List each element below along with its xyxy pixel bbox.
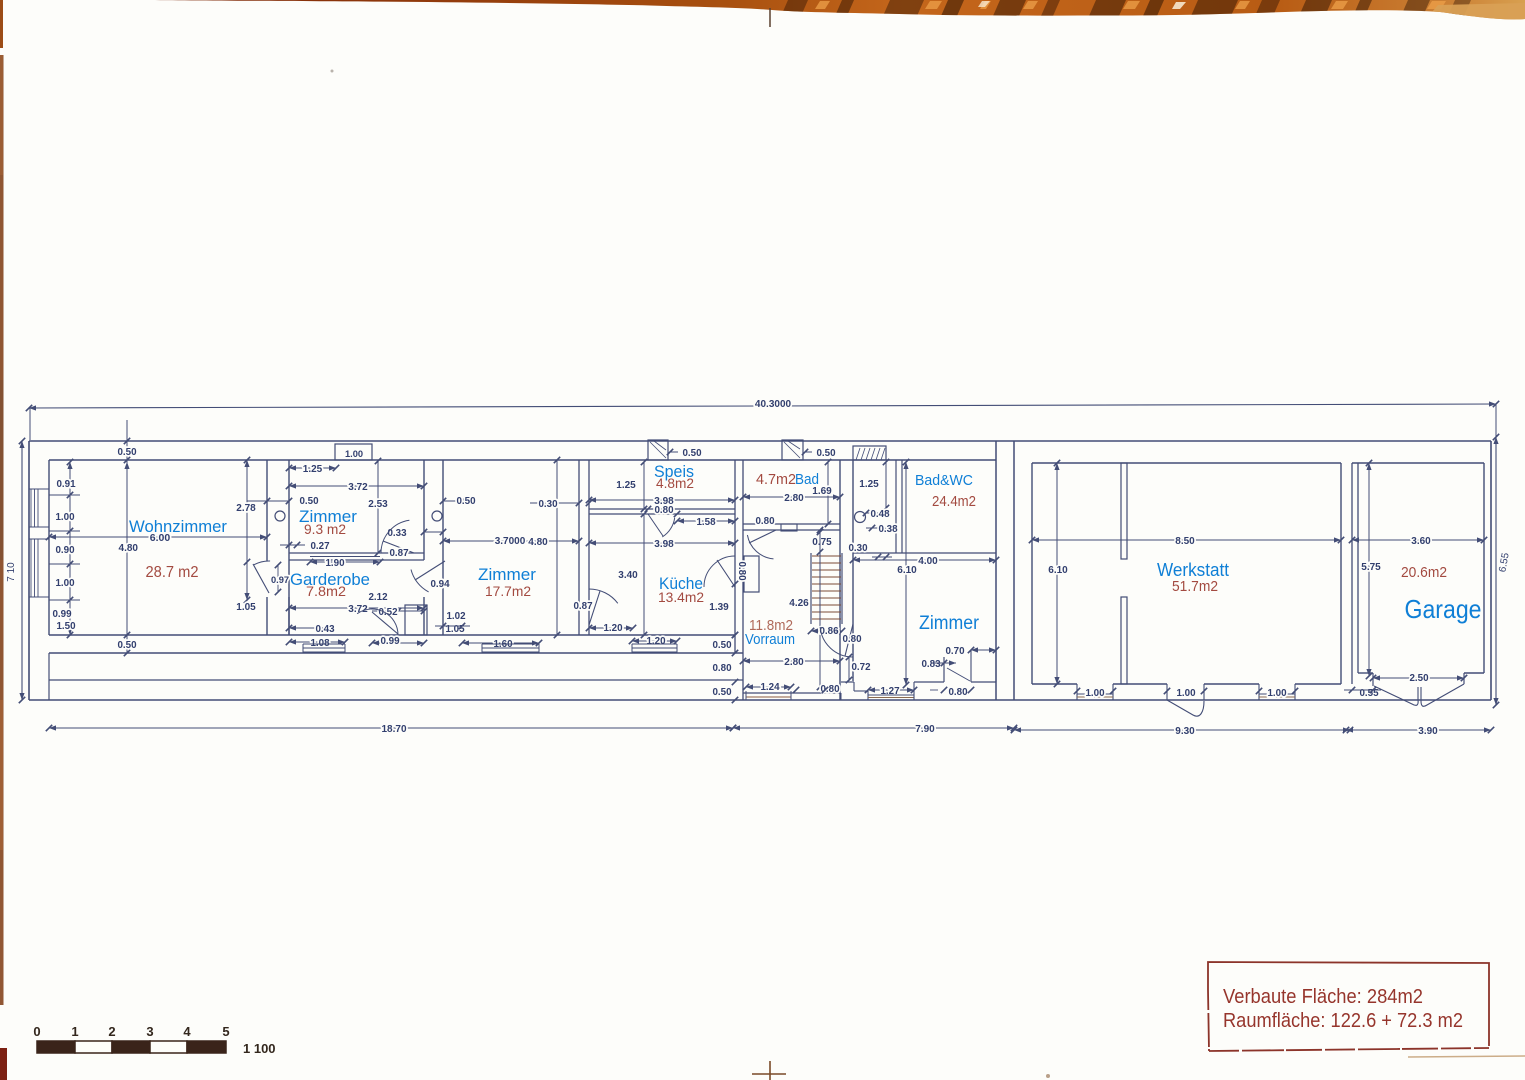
wall Wohnzimmer/Zimmer bbox=[266, 460, 268, 561]
svg-text:2: 2 bbox=[108, 1024, 115, 1039]
svg-text:0.87: 0.87 bbox=[389, 548, 409, 559]
stairs Vorraum bbox=[810, 553, 812, 624]
wc circle bbox=[855, 512, 866, 523]
svg-text:1.24: 1.24 bbox=[760, 682, 780, 693]
front wall Vorraum inner bbox=[743, 692, 840, 694]
svg-text:3: 3 bbox=[146, 1024, 153, 1039]
dimension 0.99 bbox=[372, 642, 424, 644]
dimension 3.98 lower bbox=[589, 542, 735, 544]
wall BadWC/Zimmer bbox=[853, 552, 996, 554]
dimension 6.10 werkstatt bbox=[1056, 463, 1058, 684]
dimension 0.50 wall WZ/Z bbox=[247, 500, 289, 502]
walls Werkstatt and Garage bbox=[1014, 440, 1491, 442]
dimension 2.53 bbox=[377, 461, 379, 553]
svg-text:6.10: 6.10 bbox=[1048, 565, 1068, 576]
svg-text:0.91: 0.91 bbox=[56, 479, 76, 490]
svg-text:Garage: Garage bbox=[1405, 594, 1482, 624]
dimension 0.52 bbox=[372, 610, 424, 612]
svg-text:8.50: 8.50 bbox=[1175, 536, 1195, 547]
svg-text:0.70: 0.70 bbox=[945, 646, 965, 657]
wood sliver top-left corner bbox=[0, 0, 3, 48]
dimension chain 0.50/0.80/0.50 Kueche front bbox=[732, 632, 738, 638]
dimension 7.90 bbox=[733, 727, 1014, 729]
dimension 1.20 a bbox=[589, 627, 633, 629]
dimension 18.70 bbox=[49, 727, 733, 729]
svg-text:9.30: 9.30 bbox=[1175, 726, 1195, 737]
svg-text:0.94: 0.94 bbox=[430, 579, 450, 590]
svg-text:1.20: 1.20 bbox=[646, 636, 666, 647]
svg-text:7.8m2: 7.8m2 bbox=[306, 583, 346, 599]
dimension 2.80 Vorraum bbox=[743, 660, 840, 662]
svg-text:0.80: 0.80 bbox=[654, 505, 674, 516]
door Speis bbox=[662, 518, 674, 537]
wood sliver left edge bbox=[0, 55, 4, 1005]
svg-text:2.80: 2.80 bbox=[784, 493, 804, 504]
window Kueche front bbox=[632, 643, 677, 645]
dimension 1.60 bbox=[462, 642, 539, 644]
front jamb bbox=[840, 693, 842, 700]
svg-text:2.12: 2.12 bbox=[368, 592, 388, 603]
svg-text:1.05: 1.05 bbox=[236, 602, 256, 613]
svg-text:2.53: 2.53 bbox=[368, 499, 388, 510]
door Werkstatt front bbox=[1167, 700, 1204, 716]
svg-text:0.27: 0.27 bbox=[310, 541, 330, 552]
front wall and veranda lines bbox=[49, 634, 735, 636]
svg-text:1.00: 1.00 bbox=[1267, 688, 1287, 699]
chimney Zimmer with 1.00 bbox=[335, 444, 372, 460]
dimension 1.24 bbox=[746, 686, 791, 688]
svg-text:1.69: 1.69 bbox=[812, 486, 832, 497]
dimension 3.60 bbox=[1352, 539, 1484, 541]
dimension 1.20 b bbox=[632, 640, 677, 642]
door Wohnzimmer 0.97 bbox=[253, 564, 269, 593]
dimension 5.75 bbox=[1368, 463, 1370, 676]
door Kueche west bbox=[589, 589, 618, 603]
dimension 0.75 bbox=[817, 529, 823, 535]
svg-text:1.00: 1.00 bbox=[345, 449, 363, 459]
dimension 3.7000 bbox=[443, 540, 579, 542]
svg-text:Raumfläche: 122.6 + 72.3 m2: Raumfläche: 122.6 + 72.3 m2 bbox=[1223, 1010, 1463, 1032]
svg-text:1.00: 1.00 bbox=[55, 512, 75, 523]
svg-text:0.52: 0.52 bbox=[378, 607, 398, 618]
svg-text:1.25: 1.25 bbox=[859, 479, 879, 490]
stray pencil dot bbox=[331, 70, 334, 73]
dimension 0.43 bbox=[289, 627, 324, 629]
svg-text:0.99: 0.99 bbox=[380, 636, 400, 647]
svg-text:1.25: 1.25 bbox=[303, 464, 323, 475]
dimension 40.3000 overall width bbox=[29, 404, 1496, 408]
svg-text:3.90: 3.90 bbox=[1418, 726, 1438, 737]
outer wall east of main house bbox=[995, 441, 997, 700]
door by stairs 0.80 bbox=[820, 627, 853, 657]
wall Kueche/Vorraum bbox=[734, 460, 736, 653]
dimension 1.27 bbox=[868, 689, 914, 691]
faint dot bottom right bbox=[1046, 1074, 1050, 1078]
window Vorraum front bbox=[746, 692, 791, 694]
svg-text:7.90: 7.90 bbox=[915, 724, 935, 735]
dimension 3.40 bbox=[643, 514, 645, 635]
svg-text:0.50: 0.50 bbox=[712, 687, 732, 698]
svg-text:0.80: 0.80 bbox=[755, 516, 775, 527]
windows west wall bbox=[30, 489, 32, 527]
svg-text:Wohnzimmer: Wohnzimmer bbox=[129, 517, 227, 536]
svg-text:28.7 m2: 28.7 m2 bbox=[146, 564, 199, 581]
svg-text:0.80: 0.80 bbox=[736, 561, 747, 581]
svg-text:24.4m2: 24.4m2 bbox=[932, 493, 976, 510]
svg-text:0.30: 0.30 bbox=[848, 543, 868, 554]
title block box bbox=[1208, 962, 1489, 1046]
dimension 1.25 BadWC bbox=[885, 462, 887, 508]
dimension 6.55 right bbox=[1495, 437, 1497, 705]
svg-text:0.50: 0.50 bbox=[299, 496, 319, 507]
svg-text:0.50: 0.50 bbox=[456, 496, 476, 507]
svg-text:1.90: 1.90 bbox=[325, 558, 345, 569]
svg-text:0.43: 0.43 bbox=[315, 624, 335, 635]
svg-text:4.00: 4.00 bbox=[918, 556, 938, 567]
dimension 4.26 bbox=[819, 530, 821, 687]
dimension 4.00 bbox=[853, 559, 996, 561]
svg-text:1.00: 1.00 bbox=[1085, 688, 1105, 699]
window Werkstatt front 1 bbox=[1077, 693, 1113, 695]
svg-text:1: 1 bbox=[71, 1024, 78, 1039]
dimension 4.80 Zimmer2 bbox=[556, 460, 558, 635]
svg-text:0.80: 0.80 bbox=[842, 634, 862, 645]
dimension chain west windows bbox=[69, 462, 71, 635]
wall Speis/Kueche bbox=[589, 508, 735, 510]
svg-text:0.99: 0.99 bbox=[52, 609, 72, 620]
svg-text:0.38: 0.38 bbox=[878, 524, 898, 535]
svg-text:9.3 m2: 9.3 m2 bbox=[304, 521, 346, 537]
dimension 1.08 bbox=[289, 641, 345, 643]
dimension 0.86 bbox=[811, 630, 842, 632]
svg-text:1.02: 1.02 bbox=[446, 611, 466, 622]
door Garderobe veranda and pier bbox=[357, 609, 398, 635]
svg-text:2.78: 2.78 bbox=[236, 503, 256, 514]
svg-text:1.00: 1.00 bbox=[55, 578, 75, 589]
dimension 1.58 bbox=[677, 520, 735, 522]
svg-text:0.83: 0.83 bbox=[921, 659, 941, 670]
dimension 1.39 bbox=[734, 584, 736, 635]
svg-text:0.87: 0.87 bbox=[573, 601, 593, 612]
door east Zimmer bbox=[943, 657, 945, 682]
window Werkstatt front 2 bbox=[1259, 693, 1295, 695]
svg-text:7 10: 7 10 bbox=[6, 562, 17, 582]
svg-text:3.72: 3.72 bbox=[348, 482, 368, 493]
svg-text:Bad&WC: Bad&WC bbox=[915, 472, 973, 489]
svg-text:Zimmer: Zimmer bbox=[919, 613, 980, 634]
front wall east steps and window bbox=[841, 681, 854, 683]
dimension 1.25 Speis bbox=[643, 462, 645, 509]
svg-text:40.3000: 40.3000 bbox=[755, 399, 792, 410]
svg-text:20.6m2: 20.6m2 bbox=[1401, 564, 1447, 581]
svg-text:0.97: 0.97 bbox=[271, 575, 289, 585]
svg-text:1.58: 1.58 bbox=[696, 517, 716, 528]
dimension 9.30 bbox=[1014, 729, 1350, 731]
svg-text:1.25: 1.25 bbox=[616, 480, 636, 491]
scale bar bbox=[33, 1024, 229, 1053]
column circle left bbox=[275, 511, 285, 521]
wall Bad/Vorraum bbox=[743, 523, 840, 525]
svg-text:4.80: 4.80 bbox=[119, 543, 139, 554]
dimension 3.72 Zimmer bbox=[289, 485, 424, 487]
svg-text:0.50: 0.50 bbox=[712, 640, 732, 651]
svg-text:3.40: 3.40 bbox=[618, 570, 638, 581]
window Zimmer2 front bbox=[482, 643, 539, 645]
chimney Speis with 0.50 bbox=[648, 440, 668, 460]
svg-text:0.50: 0.50 bbox=[816, 448, 836, 459]
dimension 0.38 bbox=[866, 527, 886, 529]
dimension 2.80 Bad bbox=[743, 496, 840, 498]
svg-text:0.30: 0.30 bbox=[538, 499, 558, 510]
svg-text:0.50: 0.50 bbox=[682, 448, 702, 459]
svg-text:0.72: 0.72 bbox=[851, 662, 871, 673]
svg-text:3.60: 3.60 bbox=[1411, 536, 1431, 547]
dimension 3.72 Garderobe bbox=[289, 607, 424, 609]
chimney Bad with 0.50 bbox=[782, 440, 803, 460]
svg-text:Vorraum: Vorraum bbox=[745, 631, 795, 648]
garage double door bbox=[1374, 686, 1418, 705]
dimension 6.00 Wohnzimmer bbox=[49, 536, 267, 538]
door Bad 0.80 bbox=[747, 535, 773, 559]
wall Zimmer2/Kueche bbox=[578, 460, 580, 635]
svg-text:17.7m2: 17.7m2 bbox=[485, 583, 531, 599]
svg-text:Werkstatt: Werkstatt bbox=[1157, 560, 1229, 580]
svg-text:0.48: 0.48 bbox=[870, 509, 890, 520]
dimension 0.50/4.80/0.50 west bbox=[126, 420, 128, 460]
svg-text:6.10: 6.10 bbox=[897, 565, 917, 576]
dimension 3.98 upper bbox=[589, 499, 735, 501]
faint line bottom right edge bbox=[1408, 1056, 1525, 1057]
wall stub below 0.33 bbox=[423, 597, 425, 635]
svg-text:3.98: 3.98 bbox=[654, 539, 674, 550]
dimension 0.33 bbox=[424, 531, 443, 533]
svg-text:4.80: 4.80 bbox=[528, 537, 548, 548]
vertical mark under wood edge bbox=[769, 8, 771, 27]
svg-text:3.7000: 3.7000 bbox=[495, 536, 526, 547]
wall Zimmer/Garderobe bbox=[289, 552, 424, 554]
svg-text:4.26: 4.26 bbox=[789, 598, 809, 609]
dimension 0.48 bbox=[866, 512, 886, 514]
dimension 1.90 bbox=[310, 561, 380, 563]
dimension 0.50 wall Z/Z2 bbox=[443, 500, 467, 502]
dimension 0.30 wall bbox=[530, 502, 579, 504]
door 0.94 Zimmer2 bbox=[415, 561, 445, 580]
svg-text:13.4m2: 13.4m2 bbox=[658, 589, 704, 605]
dark corner block bottom-left bbox=[0, 1048, 7, 1080]
svg-text:2.80: 2.80 bbox=[784, 657, 804, 668]
divider wall Werkstatt bbox=[1121, 463, 1127, 559]
door Kueche/Vorraum 0.80 bbox=[704, 556, 735, 587]
door 0.87 Zimmer bbox=[381, 520, 409, 553]
outer wall main house bbox=[29, 440, 1014, 442]
svg-text:18.70: 18.70 bbox=[381, 724, 406, 735]
dimension 3.90 bbox=[1346, 729, 1491, 731]
svg-text:51.7m2: 51.7m2 bbox=[1172, 578, 1218, 595]
svg-text:Verbaute Fläche: 284m2: Verbaute Fläche: 284m2 bbox=[1223, 986, 1423, 1008]
svg-text:0.80: 0.80 bbox=[712, 663, 732, 674]
svg-text:0.75: 0.75 bbox=[812, 537, 832, 548]
svg-text:4.7m2: 4.7m2 bbox=[756, 471, 796, 488]
wall Zimmer/Zimmer2 bbox=[423, 460, 425, 560]
registration cross mark bottom bbox=[752, 1061, 786, 1080]
wall Vorraum/Zimmer-east bbox=[839, 460, 841, 700]
dimension 1.25 Zimmer top bbox=[289, 467, 336, 469]
dimension 0.72 Vorraum bbox=[848, 656, 850, 681]
wood table edge top bbox=[145, 0, 1525, 20]
wall WC strip bbox=[895, 460, 897, 553]
svg-text:1 100: 1 100 bbox=[243, 1041, 276, 1056]
svg-text:1.00: 1.00 bbox=[1176, 688, 1196, 699]
dimension 8.50 bbox=[1032, 539, 1341, 541]
svg-text:5.75: 5.75 bbox=[1361, 562, 1381, 573]
svg-text:4.8m2: 4.8m2 bbox=[656, 475, 694, 491]
svg-text:1.50: 1.50 bbox=[56, 621, 76, 632]
svg-text:0: 0 bbox=[33, 1024, 40, 1039]
dimension 7.10 left bbox=[21, 441, 23, 700]
svg-text:4: 4 bbox=[183, 1024, 191, 1039]
svg-text:Zimmer: Zimmer bbox=[478, 565, 536, 584]
dimension 6.10 east bbox=[905, 462, 907, 685]
svg-text:0.50: 0.50 bbox=[117, 640, 137, 651]
dimension 0.70 bbox=[971, 649, 996, 651]
vent hatch east section bbox=[853, 446, 886, 460]
svg-text:0.50: 0.50 bbox=[117, 447, 137, 458]
svg-text:0.80: 0.80 bbox=[948, 687, 968, 698]
dimension 1.69 bbox=[827, 462, 829, 524]
svg-text:2.50: 2.50 bbox=[1409, 673, 1429, 684]
svg-text:1.20: 1.20 bbox=[603, 623, 623, 634]
column circle right bbox=[432, 511, 442, 521]
dimension 2.78/1.05 bbox=[246, 460, 248, 600]
dimension 2.50 bbox=[1373, 677, 1464, 679]
svg-text:0.90: 0.90 bbox=[55, 545, 75, 556]
svg-text:6.00: 6.00 bbox=[150, 532, 171, 544]
window Garderobe front bbox=[303, 643, 345, 645]
svg-text:5: 5 bbox=[222, 1024, 229, 1039]
svg-text:0.80: 0.80 bbox=[820, 684, 840, 695]
svg-text:1.39: 1.39 bbox=[709, 602, 729, 613]
